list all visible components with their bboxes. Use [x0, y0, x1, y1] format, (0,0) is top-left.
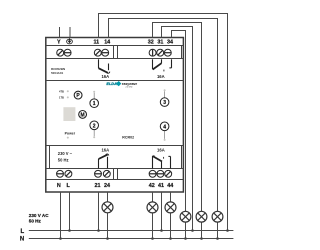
junction N-wire on N bus [59, 237, 62, 240]
svg-text:50 Hz: 50 Hz [58, 158, 69, 163]
svg-text:1: 1 [93, 101, 96, 107]
junction lamp E6 wire on N bus [216, 237, 219, 240]
wire 42 down to lamp [152, 192, 154, 202]
channel 2 LED bottom [93, 136, 95, 138]
junction 11-wire on L bus [226, 229, 229, 232]
wire 14 down to lamp [217, 18, 219, 211]
svg-text:4: 4 [163, 124, 166, 130]
top row divider after 14 [113, 46, 115, 59]
svg-text:42: 42 [149, 183, 155, 189]
bottom row divider after 24 [113, 169, 115, 180]
wire 31 up [161, 26, 163, 38]
wire lamp E1 to N bus [107, 213, 109, 239]
wire 14 rail [108, 18, 218, 20]
terminal 34 screw [164, 49, 171, 56]
svg-text:M: M [81, 112, 85, 118]
device U1 RCR02 outline [46, 38, 184, 193]
antenna wire gnd stub [69, 27, 71, 38]
terminal antenna-gnd screw [64, 49, 71, 56]
bottom unused terminal slot [117, 169, 119, 180]
svg-text:16A: 16A [157, 74, 165, 79]
lamp E1 [102, 202, 113, 213]
top relay area bottom line [46, 80, 184, 82]
terminal Y screw [57, 49, 64, 56]
wire 31 down to L bus [192, 26, 194, 231]
svg-text:4TB: 4TB [59, 90, 64, 94]
wire lamp E5 to N bus [201, 222, 203, 238]
logo diamond [116, 81, 121, 86]
svg-text:34: 34 [167, 40, 173, 46]
bottom relay area left edge [49, 146, 51, 169]
channel 3 LED top [164, 89, 166, 91]
antenna ground symbol [67, 38, 73, 43]
svg-text:2.4 GHz: 2.4 GHz [126, 87, 133, 89]
svg-text:14: 14 [104, 40, 110, 46]
top unused terminal slot [117, 46, 119, 59]
wire lamp E3 to N bus [170, 213, 172, 239]
svg-text:230 V ~: 230 V ~ [58, 151, 73, 156]
panel LED2 [67, 96, 69, 98]
junction 21-wire on L bus [97, 229, 100, 232]
terminal 44 screw [165, 170, 172, 177]
svg-text:RCR02: RCR02 [122, 136, 134, 140]
lamp E6 [212, 211, 223, 222]
terminal 21 screw [95, 170, 102, 177]
wire 11 up [98, 13, 100, 38]
wire 34 rail [171, 30, 186, 32]
terminal 11 screw [94, 49, 101, 56]
bottom terminal row top line [46, 168, 184, 170]
terminal 24 screw [103, 170, 110, 177]
wire 32 rail [152, 22, 202, 24]
antenna wire Y stub [59, 27, 61, 38]
lamp E2 [147, 202, 158, 213]
channel 4 LED stem [164, 131, 166, 139]
terminal 42 screw [149, 170, 156, 177]
panel LED1 [67, 90, 69, 92]
svg-text:16A: 16A [157, 147, 165, 152]
bottom relay area top line [46, 145, 184, 147]
relay contact K4 (42-41-44) [153, 156, 171, 169]
svg-text:1TB: 1TB [59, 96, 64, 100]
wire 32 down to lamp [201, 22, 203, 211]
button P [74, 91, 82, 99]
svg-text:5004A01: 5004A01 [51, 71, 64, 75]
wire 14 up [108, 18, 110, 38]
relay contact K1 (11-14) [99, 59, 110, 73]
svg-text:32: 32 [148, 40, 154, 46]
svg-text:11: 11 [93, 40, 99, 46]
wire lamp E4 to N bus [185, 222, 187, 238]
terminal 32 screw [149, 49, 156, 56]
svg-text:21: 21 [95, 183, 101, 189]
wire 41 down [161, 192, 163, 231]
wire 34 down to lamp [185, 30, 187, 211]
junction 31-wire on L bus [191, 229, 194, 232]
relay contact K3 (21-24) [99, 154, 109, 169]
svg-text:2: 2 [93, 123, 96, 129]
svg-text:24: 24 [104, 183, 110, 189]
wire 24 down to lamp [107, 192, 109, 202]
channel 2 LED stem [93, 130, 95, 137]
svg-text:Y: Y [57, 40, 61, 46]
terminal 41 screw [157, 170, 164, 177]
lamp E5 [196, 211, 207, 222]
junction lamp E2 wire on N bus [151, 237, 154, 240]
svg-text:44: 44 [167, 183, 173, 189]
lamp E4 [180, 211, 191, 222]
top terminal row bottom line [46, 58, 184, 60]
channel 4 LED bottom [164, 139, 166, 141]
terminal 14 screw [102, 49, 109, 56]
junction 41-wire on L bus [160, 229, 163, 232]
wire 34 up [171, 30, 173, 38]
svg-text:N: N [20, 237, 24, 243]
channel 1 LED top [93, 91, 95, 93]
button channel 2 [90, 121, 99, 130]
wire L down [69, 192, 71, 231]
button channel 3 [160, 98, 169, 107]
terminal L screw [65, 170, 72, 177]
bottom terminal row bottom line [46, 179, 184, 181]
junction lamp E1 wire on N bus [106, 237, 109, 240]
terminal N screw [57, 170, 64, 177]
svg-text:230 V AC: 230 V AC [29, 213, 49, 218]
button channel 1 [90, 99, 99, 108]
terminal 31 screw [157, 49, 164, 56]
bottom relay area right edge [181, 146, 183, 169]
svg-text:Power: Power [65, 132, 76, 136]
svg-text:N: N [57, 183, 61, 189]
lamp E3 [165, 202, 176, 213]
label field rectangle [63, 107, 75, 121]
svg-text:41: 41 [158, 183, 164, 189]
channel 1 LED stem [93, 93, 95, 99]
wire 31 rail [161, 26, 193, 28]
svg-text:16A: 16A [101, 74, 109, 79]
wire 11 rail [98, 13, 228, 15]
wire 11 down right side [227, 13, 229, 231]
svg-text:50 Hz: 50 Hz [29, 219, 42, 224]
button M [79, 111, 87, 119]
top terminal label row divider [46, 45, 184, 47]
L bus [29, 230, 234, 232]
wire lamp E6 to N bus [217, 222, 219, 238]
junction lamp E4 wire on N bus [184, 237, 187, 240]
channel 3 LED stem [164, 91, 166, 98]
wire N down [60, 192, 62, 239]
relay contact K2 (32-31-34) [153, 59, 172, 71]
N bus [29, 238, 234, 240]
button channel 4 [160, 122, 169, 131]
top row divider right of 32-group [181, 46, 183, 59]
wire 44 down to lamp [170, 192, 172, 202]
svg-text:easywave: easywave [122, 82, 138, 86]
svg-text:31: 31 [157, 40, 163, 46]
junction lamp E5 wire on N bus [200, 237, 203, 240]
junction L-wire on L bus [68, 229, 71, 232]
Power LED [67, 137, 69, 139]
wire 21 down [98, 192, 100, 231]
svg-text:3: 3 [163, 100, 166, 106]
svg-text:16A: 16A [101, 147, 109, 152]
wire lamp E2 to N bus [152, 213, 154, 239]
svg-text:L: L [21, 229, 25, 235]
junction lamp E3 wire on N bus [169, 237, 172, 240]
wire 32 up [152, 22, 154, 38]
